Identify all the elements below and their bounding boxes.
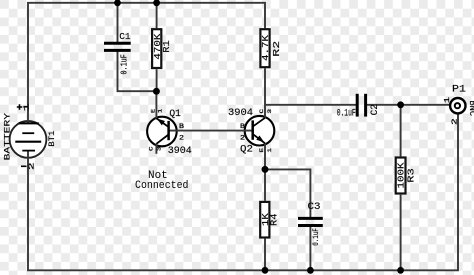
svg-text:BATTERY: BATTERY [3,113,12,161]
svg-text:1: 1 [23,103,31,111]
svg-text:Connected: Connected [135,180,189,192]
svg-text:0.1uF: 0.1uF [120,54,130,74]
svg-text:2: 2 [179,134,184,141]
svg-text:BNC: BNC [467,101,474,117]
svg-text:4.7K: 4.7K [260,35,271,61]
svg-text:2: 2 [240,134,245,141]
svg-text:Q2: Q2 [240,144,253,156]
svg-text:C1: C1 [119,31,131,42]
svg-text:2: 2 [451,118,459,125]
svg-text:R2: R2 [271,40,282,56]
svg-text:B: B [179,123,184,130]
svg-text:R3: R3 [405,168,416,183]
svg-text:C3: C3 [308,202,321,213]
svg-text:0.1uF: 0.1uF [337,108,356,119]
svg-text:0.1uF: 0.1uF [311,228,321,246]
svg-text:P1: P1 [452,84,466,96]
svg-text:C2: C2 [370,104,381,115]
svg-text:Q1: Q1 [169,108,181,120]
svg-text:BT1: BT1 [47,131,57,147]
svg-text:2: 2 [29,163,37,171]
svg-text:B: B [240,123,245,130]
svg-text:3: 3 [266,109,273,114]
svg-text:R4: R4 [269,213,280,226]
svg-text:R1: R1 [161,40,172,53]
svg-text:3904: 3904 [228,107,253,119]
svg-text:3904: 3904 [168,145,192,157]
svg-text:1: 1 [444,96,452,103]
svg-text:3: 3 [155,147,162,152]
